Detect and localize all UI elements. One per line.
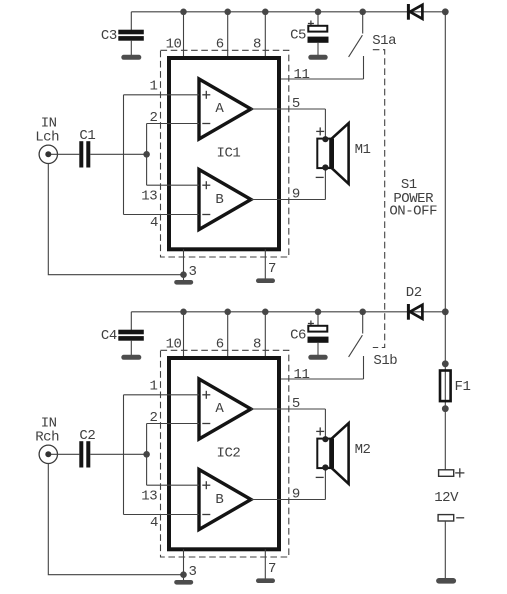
svg-text:13: 13 <box>141 488 157 504</box>
junction dot (diode / +V rail) <box>442 8 449 15</box>
capacitor C3 <box>118 12 144 55</box>
junction dot (pin 8 / rail) <box>262 9 269 16</box>
svg-text:F1: F1 <box>455 379 471 395</box>
svg-text:IC1: IC1 <box>217 145 241 161</box>
wire pin 6 <box>227 312 229 358</box>
ground (C6) <box>308 355 327 360</box>
junction dot (pin 6 / rail) <box>224 9 231 16</box>
junction dot (switch S1a / rail) <box>359 9 366 16</box>
wire pin 4 <box>124 514 200 516</box>
wire pin 2 <box>147 423 199 425</box>
fuse F1 <box>440 371 451 402</box>
svg-text:2: 2 <box>150 410 158 426</box>
wire speaker M2 - lead <box>324 468 326 500</box>
svg-text:C6: C6 <box>290 327 306 343</box>
ground (pin 7) <box>256 278 275 283</box>
ground (pin 7) <box>256 578 275 583</box>
wire pin 4 <box>124 214 200 216</box>
op-amp IC2B <box>199 470 251 530</box>
wire speaker M2 + lead <box>324 409 326 439</box>
svg-text:4: 4 <box>150 515 158 531</box>
wire pin 8 <box>264 12 266 58</box>
svg-text:C4: C4 <box>101 328 117 344</box>
ground (pin 3) <box>174 580 193 585</box>
IC IC1 dashed outline <box>161 50 289 257</box>
IC IC2 body <box>169 358 279 549</box>
ground (C5) <box>308 55 327 60</box>
wire pin 13 <box>147 184 199 186</box>
svg-text:7: 7 <box>268 261 276 277</box>
input jack IN Lch <box>39 145 79 163</box>
wire jack shield to pin 3 <box>48 464 183 575</box>
svg-text:3: 3 <box>189 564 197 580</box>
wire pin 1 <box>124 94 200 96</box>
wire pin 2 <box>147 123 199 125</box>
junction dot (F1 top) <box>442 360 449 367</box>
svg-text:9: 9 <box>292 187 300 203</box>
junction dot (pin 8 / rail) <box>262 309 269 316</box>
wire jack shield to pin 3 <box>48 164 183 275</box>
switch S1b <box>349 312 364 379</box>
node input (C1 to pins 2,13) <box>143 151 150 158</box>
wire pin 6 <box>227 12 229 58</box>
wire supply rail (Rch half) <box>131 311 445 313</box>
switch S1a <box>349 12 364 79</box>
junction dot (C5 / rail) <box>315 9 322 16</box>
wire speaker M1 - lead <box>324 168 326 200</box>
node input (C2 to pins 2,13) <box>143 451 150 458</box>
svg-text:5: 5 <box>292 396 300 412</box>
capacitor C4 <box>118 312 144 355</box>
svg-text:C1: C1 <box>79 128 95 144</box>
wire pin 5 (output A) <box>251 108 325 110</box>
junction dot (pin 10 / rail) <box>180 309 187 316</box>
svg-text:M2: M2 <box>355 442 371 458</box>
wire C2 to node <box>90 453 146 455</box>
capacitor C5 (electrolytic) <box>308 12 329 55</box>
junction dot (C6 / rail) <box>315 309 322 316</box>
wire C1 to node <box>90 153 146 155</box>
junction dot (diode / +V rail) <box>442 308 449 315</box>
wire pins 1-4 link <box>123 395 125 515</box>
op-amp IC1A <box>199 79 251 139</box>
svg-text:A: A <box>215 101 224 117</box>
svg-text:M1: M1 <box>355 142 371 158</box>
battery - terminal <box>438 515 464 521</box>
wire supply rail (Lch half) <box>131 11 445 13</box>
op-amp IC2A <box>199 379 251 439</box>
capacitor C2 <box>79 441 90 467</box>
capacitor C1 <box>79 141 90 167</box>
wire pin 11 <box>281 78 364 80</box>
battery + terminal <box>439 468 465 477</box>
svg-text:5: 5 <box>292 96 300 112</box>
svg-text:IC2: IC2 <box>217 445 241 461</box>
svg-text:ON-OFF: ON-OFF <box>389 204 437 220</box>
svg-text:Lch: Lch <box>35 130 59 146</box>
svg-text:S1b: S1b <box>373 353 397 369</box>
wire pin 3 <box>183 249 185 280</box>
wire speaker M1 + lead <box>324 109 326 139</box>
IC IC1 body <box>169 58 279 249</box>
wire +V rail (right) <box>444 12 446 470</box>
svg-text:11: 11 <box>294 67 310 83</box>
ground (pin 3) <box>174 280 193 285</box>
input jack IN Rch <box>39 445 79 463</box>
svg-text:S1a: S1a <box>372 33 396 49</box>
svg-text:9: 9 <box>292 487 300 503</box>
svg-text:C3: C3 <box>101 28 117 44</box>
op-amp IC1B <box>199 170 251 230</box>
svg-text:13: 13 <box>141 188 157 204</box>
ground (battery) <box>436 578 456 584</box>
junction dot (pin 3 / input shield) <box>180 571 187 578</box>
wire pin 13 <box>147 484 199 486</box>
wire pin 10 <box>183 12 185 58</box>
wire pin 9 (output B) <box>251 199 325 201</box>
wire pin 3 <box>183 549 185 580</box>
speaker M1 <box>316 123 349 184</box>
svg-text:A: A <box>215 401 224 417</box>
wire pins 2-13 link <box>146 424 148 486</box>
svg-text:D2: D2 <box>406 285 422 301</box>
wire battery - to ground <box>444 521 446 579</box>
svg-text:C5: C5 <box>290 27 306 43</box>
switch gang dashed link S1a-S1b <box>373 50 385 348</box>
junction dot (F1 bottom) <box>442 405 449 412</box>
svg-text:Rch: Rch <box>35 430 59 446</box>
svg-text:3: 3 <box>189 264 197 280</box>
wire pin 8 <box>264 312 266 358</box>
wire pin 1 <box>124 394 200 396</box>
label S1 POWER ON-OFF <box>389 177 437 220</box>
diode (supply) <box>408 4 422 20</box>
ground (C3) <box>121 55 141 60</box>
wire pin 7 <box>264 249 266 278</box>
junction dot (pin 10 / rail) <box>180 9 187 16</box>
wire pin 5 (output A) <box>251 408 325 410</box>
wire pin 10 <box>183 312 185 358</box>
svg-text:4: 4 <box>150 215 158 231</box>
svg-text:B: B <box>215 192 223 208</box>
svg-text:7: 7 <box>268 561 276 577</box>
svg-text:1: 1 <box>150 79 158 95</box>
svg-text:12V: 12V <box>434 490 459 506</box>
capacitor C6 (electrolytic) <box>308 312 329 355</box>
svg-text:11: 11 <box>294 367 310 383</box>
wire pin 7 <box>264 549 266 578</box>
wire pin 11 <box>281 378 364 380</box>
junction dot (switch S1b / rail) <box>359 309 366 316</box>
svg-text:B: B <box>215 492 223 508</box>
diode D2 <box>408 304 422 320</box>
svg-text:C2: C2 <box>79 428 95 444</box>
speaker M2 <box>316 423 349 484</box>
junction dot (pin 6 / rail) <box>224 309 231 316</box>
wire pin 9 (output B) <box>251 499 325 501</box>
svg-text:1: 1 <box>150 379 158 395</box>
junction dot (pin 3 / input shield) <box>180 271 187 278</box>
IC IC2 dashed outline <box>161 350 289 557</box>
svg-text:2: 2 <box>150 110 158 126</box>
ground (C4) <box>121 355 141 360</box>
wire pins 1-4 link <box>123 95 125 215</box>
wire pins 2-13 link <box>146 124 148 186</box>
